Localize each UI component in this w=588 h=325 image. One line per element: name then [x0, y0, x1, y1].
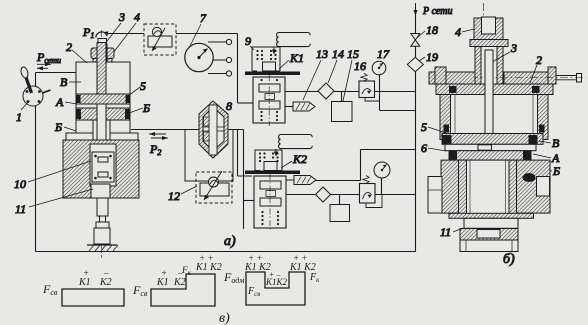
wire gauge 17 drop — [380, 75, 416, 111]
label 11 right view — [440, 225, 463, 239]
stem inside chamber — [485, 50, 493, 134]
svg-text:+: + — [161, 268, 167, 278]
label 7 — [189, 11, 207, 48]
solenoid coil of K1 — [272, 33, 310, 55]
switch 1 — [20, 66, 51, 106]
svg-text:8: 8 — [226, 99, 232, 113]
lower body block — [63, 140, 139, 198]
MIDDLE — [144, 3, 452, 249]
throttle 12 (dashed box) — [196, 171, 232, 203]
svg-text:К1 К2: К1 К2 — [244, 262, 271, 273]
force diagram 2 — [132, 253, 222, 306]
wire K2 regulator to supply — [375, 194, 416, 196]
filter K2 branch — [316, 187, 331, 202]
chamber label A — [55, 95, 77, 109]
svg-text:17: 17 — [377, 47, 390, 61]
cylinder upper body — [76, 62, 130, 94]
node P semi label with flow arrows — [36, 50, 61, 70]
left frame plate — [429, 67, 475, 84]
piston band with seals — [76, 94, 130, 104]
svg-text:+ +: + + — [248, 253, 262, 263]
bottom cap 11 — [460, 229, 518, 252]
svg-text:Р сети: Р сети — [422, 6, 452, 17]
label 5 right view — [421, 120, 446, 134]
valve block 8 housing — [185, 130, 233, 182]
svg-text:К2: К2 — [173, 277, 186, 288]
filter 19 — [407, 57, 423, 71]
gauge K2 branch — [374, 162, 390, 178]
BOTTOM-DIAGRAMS — [42, 253, 320, 325]
neck blocks — [66, 104, 138, 152]
lower piston band — [76, 108, 130, 120]
LEFT-ASSEMBLY — [14, 10, 168, 258]
wire left vertical from switch to bottom — [35, 73, 37, 252]
label 12 — [168, 186, 197, 203]
svg-text:+ +: + + — [199, 253, 213, 263]
label 6 right view — [421, 141, 446, 155]
valve K2 mounting plate — [245, 171, 300, 175]
gland nut — [91, 44, 114, 63]
svg-text:б): б) — [503, 252, 515, 267]
electrode — [94, 228, 110, 244]
label 2 — [530, 53, 542, 83]
main piston — [442, 134, 543, 151]
svg-text:+ +: + + — [293, 253, 307, 263]
svg-text:2: 2 — [536, 53, 542, 67]
svg-text:7: 7 — [200, 11, 207, 25]
wire K1 left port stub — [238, 102, 254, 104]
svg-text:10: 10 — [14, 177, 26, 191]
label 4 — [113, 10, 140, 53]
svg-text:1: 1 — [16, 110, 22, 124]
label 18 — [418, 23, 438, 37]
wire K2 gauge drop — [381, 176, 383, 195]
piston rod — [97, 43, 106, 105]
filter 14 — [318, 83, 334, 99]
valve K2 body — [254, 174, 286, 231]
wire regulator 16 to supply — [375, 91, 416, 93]
gauge 17 — [372, 61, 386, 75]
label 19 — [419, 50, 438, 64]
ram lower — [464, 218, 518, 228]
pilot head of K2 — [255, 150, 282, 171]
secondary piston band — [449, 151, 531, 160]
workpiece ground — [87, 245, 118, 251]
svg-text:3: 3 — [118, 10, 125, 24]
wire K2 branch top — [316, 150, 416, 181]
regulator 16 — [359, 73, 379, 101]
wire supply left horizontal — [36, 72, 77, 74]
muffler K2 branch — [286, 176, 316, 185]
wire K2 left port stub — [244, 200, 255, 202]
svg-text:К2: К2 — [292, 152, 307, 166]
regulator K2 branch — [360, 176, 383, 208]
arm plate with rod 2 — [455, 67, 586, 84]
wire second middle vertical — [243, 130, 245, 230]
svg-text:Б: Б — [552, 164, 560, 178]
svg-text:А: А — [55, 95, 64, 109]
svg-text:4: 4 — [455, 25, 461, 39]
svg-text:К1: К1 — [289, 51, 304, 65]
svg-text:19: 19 — [426, 50, 438, 64]
chamber label B left — [54, 120, 76, 134]
reservoir 15 — [332, 102, 353, 122]
svg-text:+ –: + – — [269, 270, 281, 279]
lower housing right — [516, 160, 550, 213]
svg-text:11: 11 — [15, 202, 26, 216]
label 5 — [128, 79, 146, 96]
wire bottom border of section a — [36, 251, 416, 253]
label K1 — [279, 51, 304, 69]
wire K2 output to diamond — [286, 194, 360, 196]
reservoir K2 branch — [330, 205, 350, 222]
wire K1 output to diamond 14 — [285, 91, 318, 93]
svg-text:13: 13 — [316, 47, 328, 61]
svg-text:в): в) — [219, 311, 230, 325]
cylinder top cap — [436, 84, 553, 95]
washer — [470, 40, 508, 47]
throttle check unit at P1 line (dashed box) — [144, 24, 176, 55]
chamber label V — [60, 75, 81, 89]
bore walls — [459, 160, 517, 217]
svg-text:К1: К1 — [156, 277, 169, 288]
upper stem 3 — [475, 47, 503, 85]
label K2 — [281, 152, 307, 168]
housing bottom band — [449, 213, 534, 218]
chamber labels V A B — [526, 136, 560, 178]
top nut 4 — [474, 17, 503, 40]
svg-text:3: 3 — [510, 41, 517, 55]
svg-text:11: 11 — [440, 225, 451, 239]
wire right supply vertical — [415, 15, 417, 252]
label 1 — [16, 101, 29, 124]
wire P1 line from cylinder top to valves — [108, 33, 238, 35]
svg-text:Б: Б — [142, 101, 150, 115]
supply arrow P seti top — [414, 3, 453, 17]
svg-text:К1: К1 — [78, 277, 91, 288]
check valve 8 — [199, 101, 228, 158]
svg-text:5: 5 — [140, 79, 146, 93]
svg-text:5: 5 — [421, 120, 427, 134]
wire middle vertical bus — [238, 34, 253, 177]
label 11 — [15, 189, 93, 216]
muffler 13 — [293, 102, 315, 111]
follower piston 10 — [92, 152, 114, 182]
svg-text:а): а) — [224, 234, 236, 249]
gauge 7 electro-contact manometer — [185, 43, 213, 71]
svg-text:К2: К2 — [99, 277, 112, 288]
solenoid coil of K2 — [274, 135, 312, 157]
piston rod top P1 — [82, 25, 108, 50]
svg-text:4: 4 — [134, 10, 140, 24]
section b centerline — [483, 3, 485, 252]
svg-text:–: – — [103, 268, 109, 278]
lower rod — [96, 198, 109, 228]
label 3 — [104, 10, 125, 45]
cylinder centerline — [101, 30, 103, 258]
node P2 with arrows — [149, 132, 168, 157]
membrane gap — [76, 104, 130, 108]
svg-text:12: 12 — [168, 189, 180, 203]
wire box 15 stub — [341, 92, 343, 102]
svg-text:К1 К2: К1 К2 — [195, 262, 222, 273]
valve K1 body — [253, 75, 285, 126]
force diagram 1 — [42, 268, 124, 306]
svg-text:16: 16 — [354, 59, 366, 73]
label 10 — [14, 161, 91, 191]
label 14 — [328, 47, 344, 83]
RIGHT-SECTION-B — [421, 3, 586, 267]
label 13 — [303, 47, 328, 100]
svg-text:+: + — [83, 268, 89, 278]
chamber label B right — [129, 101, 150, 115]
svg-text:14: 14 — [332, 47, 344, 61]
label 3 — [492, 41, 517, 62]
gauge contact terminals — [208, 39, 232, 76]
force diagram 3 — [223, 253, 320, 305]
svg-text:В: В — [60, 75, 68, 89]
svg-text:Б: Б — [54, 120, 62, 134]
wire muffler 13 stub — [285, 106, 293, 108]
wire K2 box 15 stub — [339, 195, 341, 205]
svg-text:2: 2 — [66, 40, 72, 54]
label 15 — [343, 47, 359, 101]
wire P2 pipe from cylinder to valve block — [131, 129, 244, 131]
svg-text:6: 6 — [421, 141, 427, 155]
valve K1 mounting plate — [245, 72, 300, 76]
label 4 — [455, 25, 474, 39]
svg-text:В: В — [552, 136, 560, 150]
pilot head 9 of K1 — [252, 47, 280, 71]
svg-text:18: 18 — [426, 23, 438, 37]
label 2 — [66, 40, 87, 63]
svg-text:А: А — [551, 151, 560, 165]
cylinder walls — [440, 95, 548, 140]
lower housing left — [428, 160, 466, 213]
shutoff valve 18 — [411, 34, 420, 47]
wire diamond 14 to regulator 16 — [334, 91, 359, 93]
